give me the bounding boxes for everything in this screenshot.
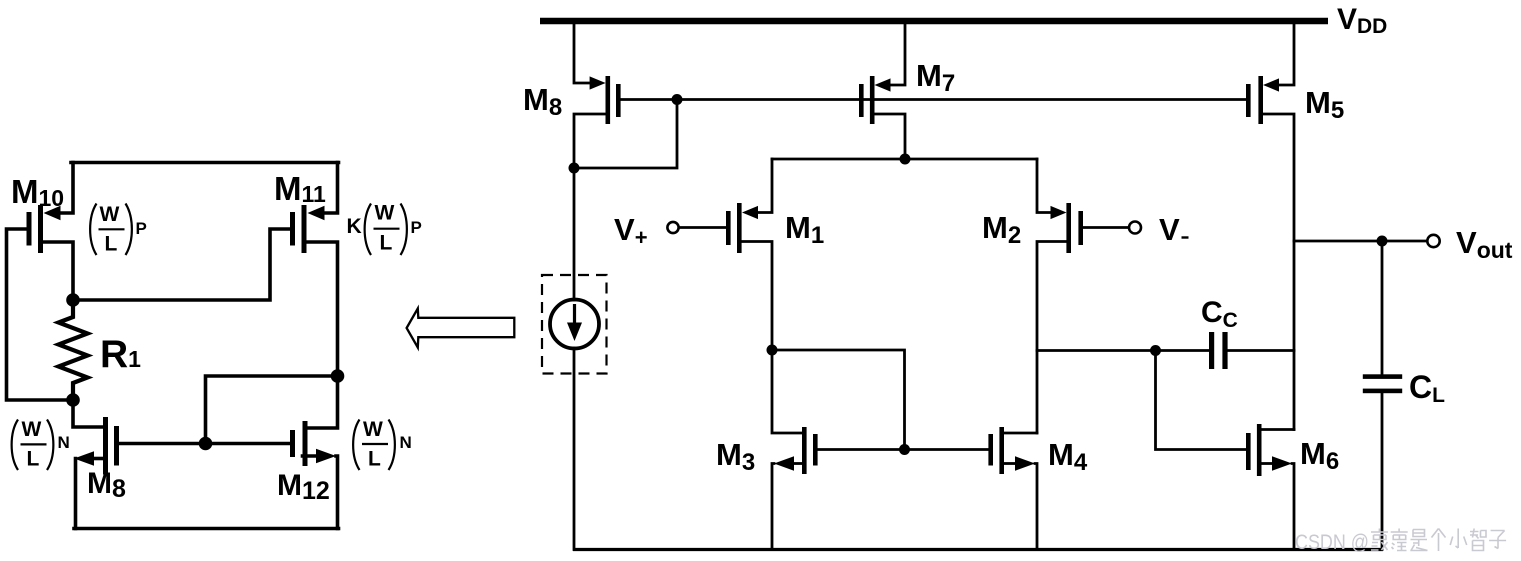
ground rail (bottom) (573, 548, 1383, 551)
input terminal V- (1129, 222, 1141, 234)
wire: M6 gate (1156, 351, 1247, 450)
wire: M3 diode loop (772, 350, 905, 450)
watermark CJK glyph 7 (1489, 531, 1506, 549)
svg-text:W: W (363, 418, 383, 441)
(W/L)N label (right) (353, 418, 412, 471)
svg-text:M1: M1 (785, 210, 824, 249)
transistor M12 (bias NMOS) (290, 376, 338, 529)
wire: load branch (1381, 241, 1384, 375)
bias bottom rail (74, 527, 339, 531)
wire: bias NMOS gate bus (119, 442, 290, 446)
svg-text:V: V (1159, 212, 1180, 247)
node: first-stage output / M3 drain (767, 345, 778, 356)
transistor M4 (NMOS mirror) (988, 427, 1037, 550)
watermark CJK glyph 3 (1410, 530, 1427, 551)
wire: differential pair tail rail (772, 158, 1037, 161)
svg-text:P: P (411, 218, 422, 237)
wire: M3/M4 gate bus (818, 448, 989, 451)
svg-text:N: N (400, 433, 412, 452)
node: R1 bottom / M8 drain / M10 gate (66, 393, 80, 407)
(W/L)P label (90, 203, 147, 256)
svg-text:W: W (100, 203, 120, 226)
svg-text:L: L (105, 233, 118, 256)
wire: bias column above current source (573, 168, 576, 300)
svg-text:M2: M2 (982, 210, 1021, 249)
block arrow (bias feeds Iref) (407, 309, 515, 348)
node: M8/M12 gates (199, 437, 213, 451)
wire: M10 drain to M11 gate (73, 229, 290, 300)
svg-text:N: N (58, 433, 70, 452)
svg-text:M4: M4 (1048, 437, 1088, 476)
transistor M1 (PMOS input +) (679, 159, 773, 350)
svg-text:M8: M8 (87, 467, 126, 503)
svg-text:CSDN @: CSDN @ (1295, 531, 1369, 554)
svg-text:CL: CL (1409, 369, 1445, 407)
wire: M8 gate-drain loop (574, 100, 677, 169)
svg-text:L: L (27, 448, 40, 471)
svg-text:M7: M7 (916, 58, 955, 97)
node: M11/M12 drains (331, 369, 345, 383)
svg-text:L: L (368, 448, 381, 471)
svg-text:M10: M10 (11, 173, 64, 211)
svg-text:L: L (380, 232, 393, 255)
VDD rail (540, 18, 1328, 24)
transistor M10 (PMOS) (7, 163, 74, 401)
resistor R1 (59, 300, 88, 400)
node: output (1377, 236, 1388, 247)
transistor M11 (PMOS) (290, 163, 338, 377)
input terminal V+ (667, 222, 678, 233)
capacitor CC (1209, 332, 1294, 369)
svg-text:M3: M3 (716, 437, 755, 476)
node: compensation tap (1150, 345, 1161, 356)
(W/L)N label (left) (12, 418, 70, 471)
K(W/L)P label (347, 202, 422, 256)
wire: gate bus M8-M7-M5 (621, 98, 1247, 101)
wire: output line (1294, 240, 1427, 243)
transistor M8 (bias NMOS) (73, 400, 119, 529)
svg-text:W: W (375, 202, 395, 225)
transistor M7 (PMOS tail current source) (859, 24, 905, 159)
transistor M3 (NMOS mirror, diode-connected) (772, 350, 818, 550)
svg-text:M5: M5 (1305, 85, 1344, 124)
node: M10 drain / R1 top (66, 293, 80, 307)
svg-text:CC: CC (1201, 296, 1238, 332)
watermark CJK glyph 1 (1371, 529, 1388, 551)
transistor M5 (PMOS output stage) (1246, 24, 1294, 430)
node: M8 drain / bias tap (569, 163, 580, 174)
svg-text:VDD: VDD (1337, 3, 1387, 38)
svg-text:P: P (136, 219, 147, 238)
svg-text:M11: M11 (274, 170, 326, 207)
svg-text:M12: M12 (277, 469, 330, 505)
watermark CJK glyph 6 (1470, 529, 1486, 551)
svg-text:Vout: Vout (1456, 225, 1513, 263)
svg-text:K: K (347, 215, 362, 238)
svg-text:W: W (22, 418, 42, 441)
transistor M6 (NMOS output stage) (1246, 424, 1294, 550)
svg-text:M8: M8 (523, 82, 562, 121)
node: tail (900, 154, 911, 165)
watermark CJK glyph 2 (1391, 529, 1408, 551)
node: M8 gate (672, 94, 683, 105)
current source Iref (dashed box) (542, 275, 607, 374)
transistor M2 (PMOS input -) (1037, 159, 1129, 433)
node: mirror gates (899, 444, 910, 455)
wire: M12 diode loop (206, 376, 338, 444)
wire: second stage input (1037, 349, 1209, 352)
capacitor CL (1363, 374, 1402, 549)
svg-text:V+: V+ (614, 212, 648, 250)
output terminal (1427, 235, 1439, 247)
watermark CJK glyph 5 (1450, 529, 1467, 549)
transistor M8 (PMOS, diode-connected) (574, 24, 621, 168)
watermark CJK glyph 4 (1432, 529, 1446, 552)
wire: bias column below current source (573, 348, 576, 550)
svg-text:M6: M6 (1300, 436, 1339, 475)
bias top rail (71, 161, 339, 165)
svg-text:R1: R1 (100, 333, 141, 376)
